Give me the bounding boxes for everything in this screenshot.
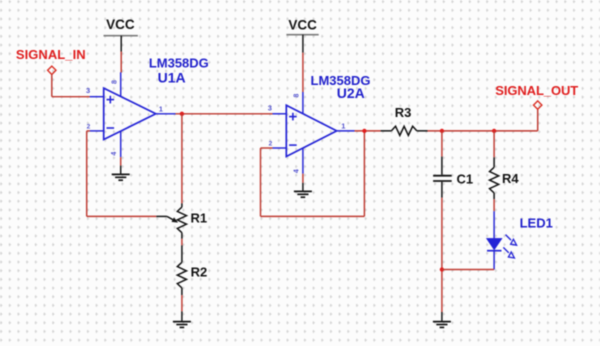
svg-text:3: 3 <box>268 104 272 113</box>
svg-text:R4: R4 <box>502 171 519 186</box>
svg-text:VCC: VCC <box>106 17 135 32</box>
svg-text:LED1: LED1 <box>520 216 553 231</box>
label R3 <box>395 105 412 120</box>
svg-text:LM358DG: LM358DG <box>149 56 209 71</box>
wire <box>537 109 539 131</box>
wire <box>120 52 122 73</box>
svg-text:4: 4 <box>111 152 118 156</box>
svg-text:U1A: U1A <box>158 70 186 86</box>
power VCC2 <box>286 18 318 53</box>
label LED1 <box>520 216 553 231</box>
capacitor C1 <box>433 157 452 198</box>
wire <box>493 131 495 157</box>
resistor R1 <box>156 203 186 238</box>
junction <box>180 112 184 116</box>
junction <box>362 129 366 133</box>
LED LED1 <box>487 211 517 269</box>
wire <box>120 157 122 165</box>
port SIGNAL_OUT <box>495 83 578 109</box>
svg-text:2: 2 <box>269 140 273 147</box>
label LM358DG U2A <box>311 73 371 101</box>
svg-text:SIGNAL_IN: SIGNAL_IN <box>16 47 86 62</box>
op-amp U2A <box>268 92 355 174</box>
junction <box>440 267 444 271</box>
svg-text:VCC: VCC <box>288 18 317 33</box>
svg-text:2: 2 <box>87 124 91 131</box>
port SIGNAL_IN <box>16 47 86 75</box>
wire <box>442 269 494 271</box>
wire <box>302 174 304 183</box>
wire <box>355 130 381 132</box>
svg-text:8: 8 <box>112 80 119 84</box>
ground <box>294 183 312 197</box>
svg-text:R3: R3 <box>395 105 412 120</box>
label R4 <box>502 171 519 186</box>
power VCC1 <box>104 17 138 51</box>
resistor R2 <box>177 245 186 295</box>
ground <box>112 166 130 181</box>
label LM358DG U1A <box>149 56 209 86</box>
svg-text:4: 4 <box>294 169 301 173</box>
wire <box>181 295 183 311</box>
svg-text:SIGNAL_OUT: SIGNAL_OUT <box>495 83 578 98</box>
svg-text:U2A: U2A <box>337 85 365 101</box>
svg-text:1: 1 <box>341 121 345 130</box>
wire <box>87 131 157 217</box>
resistor R4 <box>490 157 499 199</box>
resistor R3 <box>381 126 428 135</box>
label C1 <box>457 171 474 186</box>
wire <box>493 199 495 211</box>
wire <box>181 114 183 204</box>
wire <box>52 74 90 97</box>
wire <box>428 130 538 132</box>
svg-text:1: 1 <box>159 105 163 114</box>
wire <box>261 131 365 217</box>
wire <box>176 113 273 115</box>
junction <box>440 129 444 133</box>
junction <box>492 129 496 133</box>
op-amp U1A <box>86 72 176 157</box>
wire <box>441 198 443 312</box>
svg-text:R1: R1 <box>191 210 208 225</box>
ground <box>433 312 451 327</box>
wire <box>302 53 304 92</box>
wire <box>181 239 183 246</box>
svg-text:3: 3 <box>86 86 90 95</box>
ground <box>173 311 191 327</box>
wire <box>441 131 443 157</box>
svg-text:C1: C1 <box>457 171 474 186</box>
label R2 <box>191 265 208 280</box>
svg-text:R2: R2 <box>191 265 208 280</box>
svg-text:8: 8 <box>294 94 301 98</box>
label R1 <box>191 210 208 225</box>
